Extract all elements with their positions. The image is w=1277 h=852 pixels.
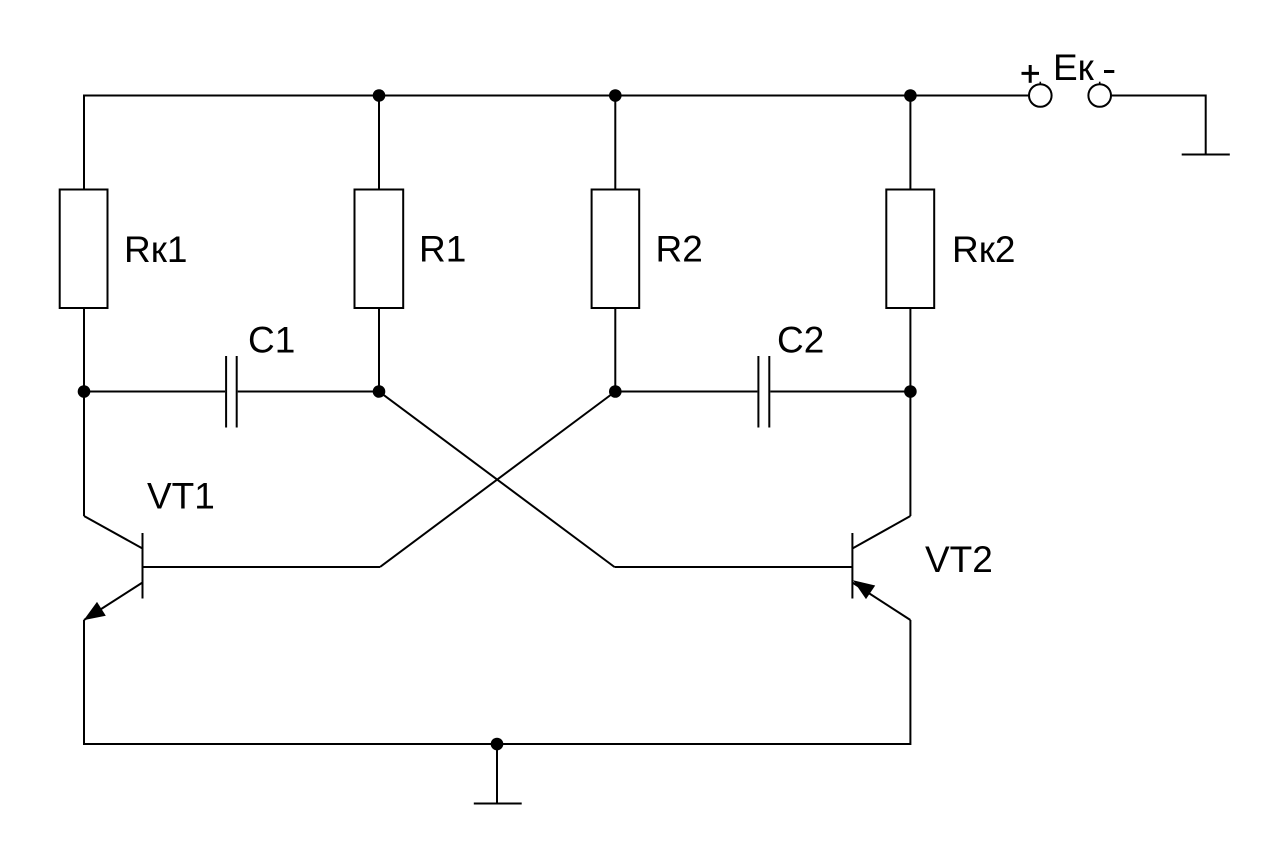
svg-text:Rк2: Rк2: [952, 229, 1016, 270]
svg-text:VT1: VT1: [147, 476, 215, 517]
svg-text:Eк: Eк: [1053, 47, 1095, 88]
svg-text:R2: R2: [656, 229, 703, 270]
svg-text:Rк1: Rк1: [124, 229, 188, 270]
svg-text:R1: R1: [419, 229, 466, 270]
svg-text:VT2: VT2: [925, 539, 993, 580]
svg-text:C2: C2: [777, 320, 824, 361]
svg-text:C1: C1: [248, 320, 295, 361]
